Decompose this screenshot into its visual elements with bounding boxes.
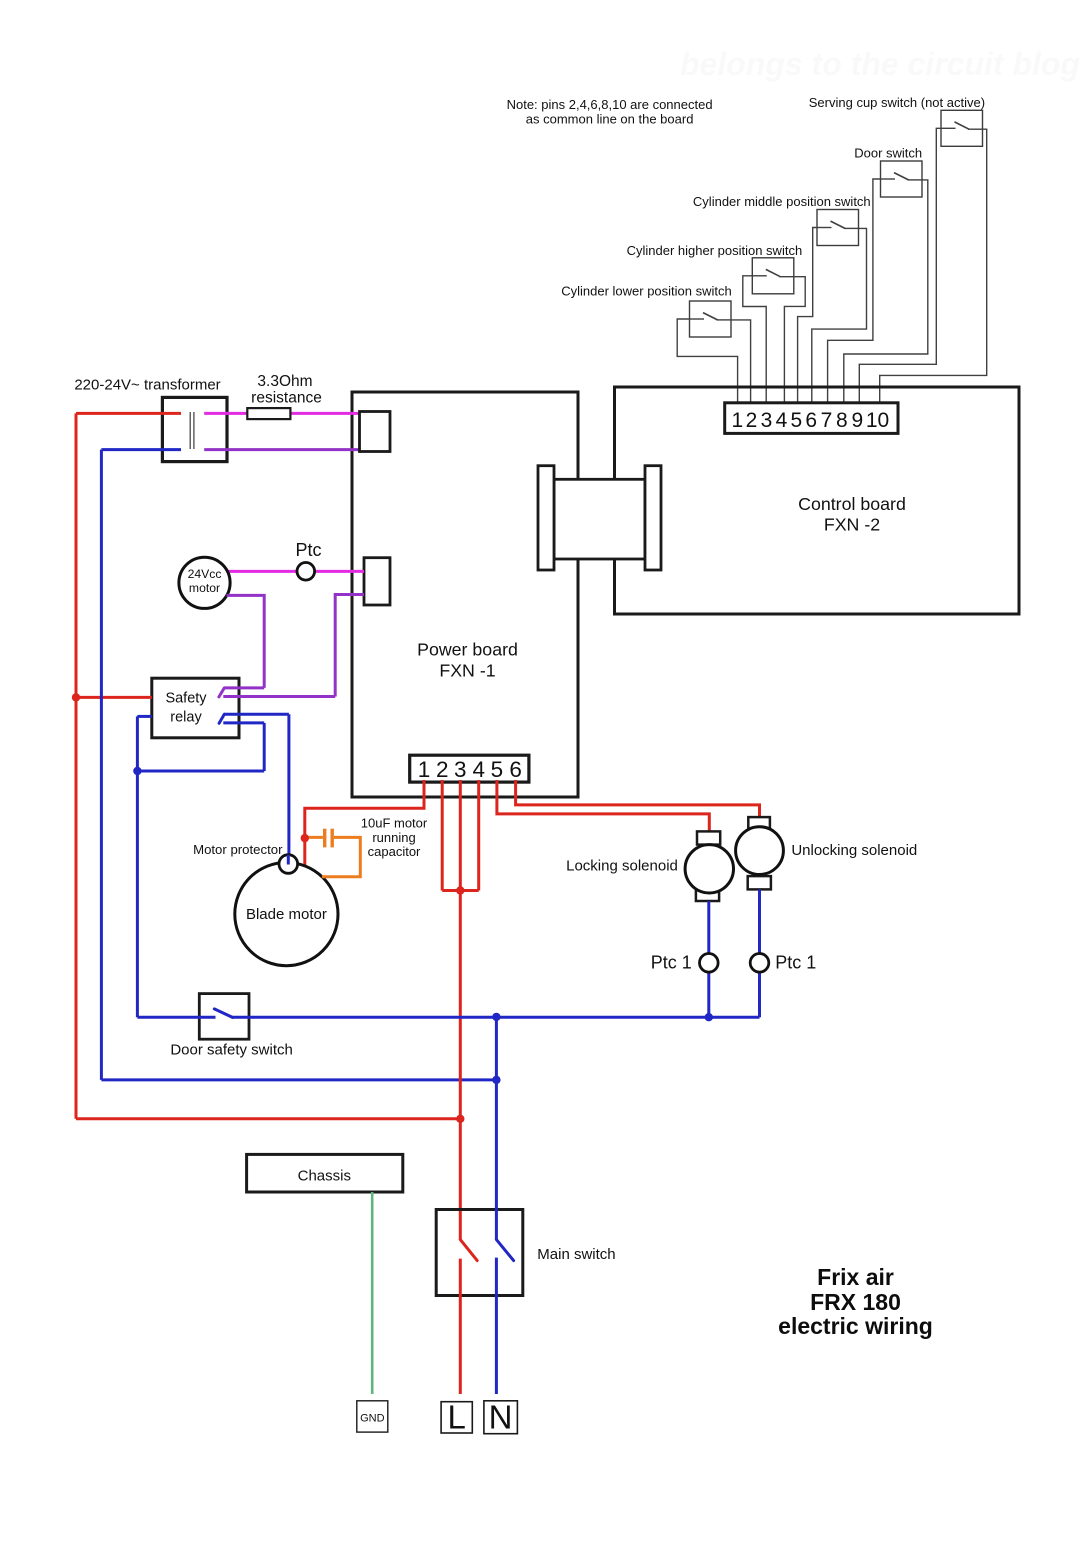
svg-text:Ptc: Ptc: [295, 540, 321, 560]
svg-text:2: 2: [746, 409, 758, 432]
svg-text:Cylinder higher position switc: Cylinder higher position switch: [627, 243, 803, 258]
svg-text:4: 4: [472, 757, 485, 782]
svg-text:as common line on the board: as common line on the board: [526, 112, 694, 127]
svg-text:resistance: resistance: [251, 390, 322, 407]
svg-text:Blade motor: Blade motor: [246, 906, 327, 923]
svg-text:10uF motor: 10uF motor: [361, 816, 428, 831]
svg-text:Unlocking solenoid: Unlocking solenoid: [791, 842, 917, 859]
svg-text:Cylinder lower position switch: Cylinder lower position switch: [561, 283, 732, 298]
svg-text:Main switch: Main switch: [537, 1246, 615, 1263]
svg-text:Chassis: Chassis: [298, 1168, 351, 1185]
svg-text:5: 5: [491, 757, 504, 782]
svg-text:motor: motor: [189, 581, 220, 595]
svg-text:6: 6: [509, 757, 522, 782]
svg-text:capacitor: capacitor: [368, 844, 421, 859]
svg-text:Serving cup switch (not active: Serving cup switch (not active): [809, 95, 985, 110]
svg-text:24Vcc: 24Vcc: [188, 567, 222, 581]
svg-text:4: 4: [776, 409, 788, 432]
svg-text:5: 5: [790, 409, 802, 432]
svg-text:FXN -1: FXN -1: [439, 661, 495, 681]
svg-text:Cylinder middle position switc: Cylinder middle position switch: [693, 194, 871, 209]
svg-text:8: 8: [836, 409, 848, 432]
svg-text:9: 9: [852, 409, 864, 432]
svg-text:Note: pins 2,4,6,8,10 are conn: Note: pins 2,4,6,8,10 are connected: [507, 97, 713, 112]
svg-text:GND: GND: [360, 1413, 385, 1425]
svg-text:Door safety switch: Door safety switch: [170, 1042, 293, 1059]
svg-text:2: 2: [436, 757, 449, 782]
svg-text:220-24V~ transformer: 220-24V~ transformer: [74, 377, 220, 394]
svg-text:Power board: Power board: [417, 640, 518, 660]
svg-text:L: L: [448, 1399, 466, 1436]
svg-text:belongs to the circuit blog: belongs to the circuit blog: [680, 46, 1080, 82]
svg-text:FXN -2: FXN -2: [824, 515, 880, 535]
svg-text:N: N: [489, 1399, 513, 1436]
svg-text:7: 7: [821, 409, 833, 432]
svg-text:Locking solenoid: Locking solenoid: [566, 857, 678, 874]
svg-text:Ptc 1: Ptc 1: [651, 953, 692, 973]
svg-text:3: 3: [454, 757, 467, 782]
svg-text:3.3Ohm: 3.3Ohm: [257, 373, 312, 390]
svg-text:Door switch: Door switch: [854, 145, 922, 160]
svg-text:6: 6: [805, 409, 817, 432]
svg-text:Safety: Safety: [165, 691, 207, 707]
svg-text:10: 10: [866, 409, 889, 432]
svg-text:Motor protector: Motor protector: [193, 842, 283, 857]
svg-text:Control board: Control board: [798, 494, 906, 514]
svg-text:1: 1: [731, 409, 743, 432]
svg-text:Ptc 1: Ptc 1: [775, 953, 816, 973]
svg-text:Frix air: Frix air: [817, 1264, 894, 1290]
svg-text:electric wiring: electric wiring: [778, 1313, 933, 1339]
svg-text:relay: relay: [170, 710, 202, 726]
svg-text:FRX 180: FRX 180: [810, 1289, 901, 1315]
svg-text:3: 3: [761, 409, 773, 432]
svg-text:1: 1: [418, 757, 431, 782]
svg-text:running: running: [372, 830, 415, 845]
